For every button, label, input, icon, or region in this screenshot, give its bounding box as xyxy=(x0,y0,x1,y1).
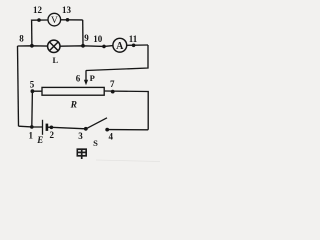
scan artifact smudge bottom right xyxy=(96,160,160,162)
battery E short plate xyxy=(46,124,49,131)
lamp L cross xyxy=(50,42,59,51)
svg-text:11: 11 xyxy=(129,34,138,44)
svg-text:R: R xyxy=(70,101,77,111)
wire slider stem xyxy=(85,70,87,80)
caption 甲 drawn as strokes xyxy=(77,149,86,159)
svg-text:A: A xyxy=(116,41,124,52)
wire lamp line left xyxy=(18,45,48,47)
slider P arrowhead xyxy=(84,80,88,86)
battery E long plate xyxy=(42,120,44,135)
node 4 dot xyxy=(105,128,109,132)
switch S blade xyxy=(86,118,107,129)
voltmeter U3 circle xyxy=(48,13,61,26)
svg-text:4: 4 xyxy=(109,132,114,142)
wire left drop from node 12 corner to lamp line xyxy=(31,20,33,46)
node 11 dot xyxy=(132,44,136,48)
wire bottom line (battery/switch row) xyxy=(19,125,43,128)
node 2 dot xyxy=(50,126,54,130)
rheostat R body xyxy=(42,87,104,95)
node 13 dot xyxy=(66,18,70,22)
node 12 dot xyxy=(37,18,41,22)
svg-text:10: 10 xyxy=(93,34,103,44)
svg-text:2: 2 xyxy=(50,130,55,140)
wire voltmeter right segment xyxy=(61,19,83,21)
svg-text:1: 1 xyxy=(29,130,34,140)
svg-text:L: L xyxy=(52,55,58,65)
wire rheostat left lead + drop to node 1 xyxy=(32,91,42,127)
wire lamp line right (ammeter to corner) xyxy=(127,44,148,46)
svg-text:9: 9 xyxy=(84,33,89,43)
svg-text:6: 6 xyxy=(76,74,81,84)
svg-text:3: 3 xyxy=(78,131,83,141)
node 7 dot xyxy=(111,90,115,94)
svg-text:S: S xyxy=(93,138,98,148)
node junction under 12 xyxy=(30,44,34,48)
svg-text:12: 12 xyxy=(33,5,43,15)
node 9 junction xyxy=(81,44,85,48)
svg-text:8: 8 xyxy=(19,34,24,44)
ammeter U2 circle xyxy=(113,38,127,52)
wire voltmeter branch top xyxy=(32,19,49,21)
wire lamp line middle (node 9 to ammeter) xyxy=(60,45,113,48)
wire right drop from node 13 corner to lamp line node 9 xyxy=(82,20,84,46)
svg-text:P: P xyxy=(90,73,95,83)
svg-text:5: 5 xyxy=(30,79,35,89)
wire right vertical top loop xyxy=(86,45,148,71)
svg-text:E: E xyxy=(36,135,43,145)
svg-text:7: 7 xyxy=(110,79,115,89)
node 5 dot xyxy=(31,89,35,93)
svg-text:V: V xyxy=(51,16,58,26)
node 1 dot xyxy=(30,125,34,129)
wire left vertical main xyxy=(18,46,19,126)
node 3 dot xyxy=(84,127,88,131)
node 10 dot xyxy=(102,45,106,49)
svg-text:13: 13 xyxy=(62,5,72,15)
wire right vertical bottom loop xyxy=(104,91,148,130)
lamp L circle xyxy=(48,40,60,52)
